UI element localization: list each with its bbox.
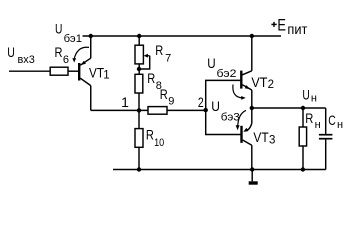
transistor VT3: [242, 124, 252, 146]
wire input: [9, 70, 50, 72]
svg-text:VT: VT: [253, 129, 269, 145]
arrow Ube3 pointer: [238, 110, 246, 126]
node dot Rn top: [301, 106, 305, 110]
svg-text:н: н: [337, 119, 343, 131]
node dot Rn bottom: [301, 167, 305, 171]
top rail: [83, 35, 282, 37]
svg-text:C: C: [328, 112, 336, 128]
wire R7 bottom lead: [138, 64, 140, 74]
node dot rail-VT2: [250, 34, 254, 38]
svg-text:E: E: [277, 15, 286, 34]
capacitor Cn: [319, 134, 333, 136]
svg-text:н: н: [315, 119, 321, 131]
wire VT1 emitter up: [90, 36, 92, 58]
resistor R9: [148, 107, 167, 115]
svg-text:R: R: [305, 110, 313, 126]
R7 wiper wire: [139, 56, 150, 69]
node dot R10 bottom: [137, 167, 141, 171]
base bar: [240, 126, 242, 143]
base bar: [78, 63, 80, 81]
svg-text:бэ3: бэ3: [221, 112, 240, 124]
node dot VT2e/VT3c: [250, 106, 254, 110]
emitter curved lead (PNP, from top): [247, 124, 252, 131]
svg-text:R: R: [160, 86, 168, 102]
resistor R6: [50, 67, 68, 75]
wire VT1 collector down: [90, 86, 92, 111]
svg-text:R: R: [146, 127, 154, 143]
wire node2 riser down: [206, 110, 241, 134]
svg-text:7: 7: [165, 52, 171, 64]
collector diagonal: [243, 140, 252, 145]
collector diagonal: [242, 71, 251, 75]
wire Cn bottom lead: [325, 140, 327, 170]
node 2: [204, 108, 208, 112]
svg-text:пит: пит: [287, 21, 308, 37]
wire Rn top lead: [302, 108, 304, 127]
wire Cn top lead: [325, 108, 327, 134]
node dot rail-R7: [137, 34, 141, 38]
transistor VT1: [79, 58, 91, 85]
wire VT2 collector up: [251, 36, 253, 71]
wire R10 top lead: [138, 110, 140, 128]
collector diagonal: [80, 78, 90, 85]
wire R7 top lead: [138, 36, 140, 45]
svg-text:VT: VT: [89, 65, 104, 81]
svg-text:3: 3: [269, 134, 275, 146]
base bar: [240, 71, 242, 89]
wire node2 riser up: [206, 80, 241, 110]
svg-text:U: U: [207, 55, 215, 71]
bottom rail: [113, 169, 326, 171]
svg-text:U: U: [55, 21, 62, 37]
label +Epit: [271, 23, 276, 25]
resistor R8: [135, 74, 143, 93]
wire R9 to node2: [167, 109, 206, 111]
svg-text:2: 2: [198, 94, 204, 110]
svg-text:U: U: [7, 44, 15, 60]
svg-text:6: 6: [63, 54, 69, 66]
svg-text:н: н: [311, 93, 317, 105]
wire R8 bottom lead: [138, 93, 140, 110]
transistor VT2: [241, 71, 252, 90]
arrow Ube1 pointer: [74, 47, 89, 58]
svg-text:R: R: [155, 42, 163, 58]
emitter arrow (PNP, points to bar): [81, 61, 86, 65]
wire R10 bottom lead: [138, 147, 140, 169]
emitter diagonal: [80, 58, 90, 65]
node dot VT3 emitter bottom: [250, 167, 254, 171]
node 1: [137, 108, 141, 112]
svg-text:1: 1: [121, 94, 129, 110]
svg-text:R: R: [147, 70, 155, 86]
emitter diagonal: [242, 85, 251, 90]
wire Rn bottom lead: [302, 146, 304, 170]
svg-text:9: 9: [168, 96, 174, 108]
arrow Ube2 pointer: [233, 85, 243, 98]
resistor R10: [135, 129, 143, 148]
svg-text:2: 2: [268, 79, 274, 91]
emitter arrow (NPN): [245, 85, 251, 89]
emitter arrow (PNP, points to bar): [243, 128, 248, 132]
svg-text:10: 10: [154, 137, 164, 149]
svg-text:вх3: вх3: [18, 54, 35, 66]
svg-text:VT: VT: [251, 74, 267, 90]
node dot R7/R8: [137, 67, 141, 71]
svg-text:1: 1: [103, 70, 109, 82]
wire VT3 collector down: [251, 145, 253, 169]
wire VT3 emitter up: [251, 108, 253, 124]
wire node1 line: [91, 109, 148, 111]
resistor R7: [135, 45, 143, 64]
wire R6 to VT1 base: [68, 70, 78, 72]
R7 wiper arrow: [147, 55, 150, 57]
resistor Rn: [299, 127, 306, 146]
svg-text:бэ1: бэ1: [64, 33, 82, 45]
svg-text:R: R: [55, 44, 63, 60]
wire VT2 emitter down: [251, 90, 253, 108]
node dot rail-VT1: [89, 34, 93, 38]
svg-text:бэ2: бэ2: [217, 68, 237, 80]
svg-text:U: U: [302, 87, 309, 103]
wire output line: [252, 107, 326, 109]
ground: [251, 170, 253, 182]
svg-text:U: U: [211, 98, 220, 114]
